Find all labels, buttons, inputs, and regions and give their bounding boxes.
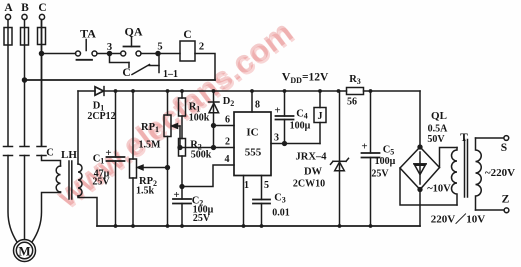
contactor coil C	[180, 41, 195, 61]
svg-text:TA: TA	[80, 27, 96, 41]
svg-text:D2: D2	[223, 96, 235, 108]
node control rail at B	[23, 78, 27, 82]
fuse FU phase A	[4, 28, 12, 46]
svg-text:QA: QA	[125, 25, 143, 39]
vdd rail right of R3	[364, 90, 421, 92]
resistor R1 100k	[179, 91, 186, 139]
svg-text:2CW10: 2CW10	[293, 179, 325, 190]
svg-text:T: T	[460, 132, 468, 144]
wire phase B upper	[24, 20, 26, 146]
wire TA to node 3	[97, 53, 110, 55]
svg-text:B: B	[21, 2, 29, 14]
relay coil J	[314, 91, 326, 144]
wire LH secondary bottom to ground rail	[78, 196, 97, 226]
pushbutton QA	[121, 37, 141, 56]
IC 555 timer U1	[234, 112, 271, 176]
node D2-pin2	[212, 146, 216, 150]
wire phase C upper	[41, 20, 43, 146]
zener diode DW 2CW10	[331, 91, 349, 226]
wire pin 4	[182, 165, 234, 187]
wire branch node3 down	[110, 54, 130, 63]
wire bridge bottom to ground	[419, 190, 421, 227]
svg-text:56: 56	[347, 97, 357, 108]
resistor R2 500k	[179, 139, 186, 200]
wire pin 1 to ground	[243, 176, 245, 227]
transformer T	[452, 138, 482, 210]
wire phase C to LH primary	[42, 156, 61, 167]
svg-text:500k: 500k	[191, 150, 212, 161]
node 3	[108, 52, 112, 56]
wire node5 to coil C	[158, 53, 180, 55]
svg-text:8: 8	[255, 100, 260, 111]
wire secondary bottom to Z	[476, 209, 505, 211]
svg-text:6: 6	[225, 115, 230, 126]
wire pin 2	[180, 147, 234, 149]
svg-text:C: C	[38, 2, 46, 14]
svg-text:Z: Z	[502, 194, 510, 206]
node R2-C2	[180, 185, 184, 189]
fuse FU phase C	[38, 28, 46, 45]
svg-text:2: 2	[199, 42, 204, 53]
terminal A	[5, 14, 10, 19]
svg-text:LH: LH	[61, 149, 77, 161]
node control tap on phase C	[40, 52, 44, 56]
node bridge top	[418, 145, 422, 149]
wire QA to node 5	[141, 53, 158, 55]
terminal S	[504, 136, 509, 141]
pushbutton TA	[76, 40, 98, 60]
svg-text:25V: 25V	[371, 169, 389, 180]
svg-text:25V: 25V	[92, 177, 110, 188]
node RP1 wiper pin2	[178, 146, 182, 150]
svg-text:1.5k: 1.5k	[136, 186, 155, 197]
current transformer LH	[56, 161, 82, 199]
svg-text:+: +	[274, 105, 280, 117]
wire LH secondary top to D1	[77, 91, 79, 164]
svg-text:M: M	[18, 244, 30, 259]
contact C 1-1	[129, 54, 159, 75]
svg-text:50V: 50V	[427, 134, 445, 145]
svg-text:1.5M: 1.5M	[139, 140, 162, 151]
watermark www.elecfans.com	[49, 13, 301, 216]
wire bridge left to transformer bottom	[400, 168, 457, 205]
svg-text:S: S	[501, 142, 507, 154]
svg-text:0.01: 0.01	[272, 208, 290, 219]
svg-text:QL: QL	[431, 110, 447, 122]
svg-text:+: +	[173, 189, 179, 201]
wire bridge right to transformer top	[440, 148, 458, 168]
capacitor C2	[173, 199, 191, 226]
diode D2	[209, 91, 220, 148]
svg-text:C: C	[183, 29, 191, 41]
capacitor C3 0.01	[253, 200, 270, 227]
svg-text:2: 2	[225, 137, 230, 148]
node bridge bottom	[418, 188, 422, 192]
svg-text:25V: 25V	[193, 213, 211, 224]
svg-text:J: J	[318, 111, 323, 122]
wire secondary top to S	[476, 137, 504, 139]
svg-text:5: 5	[264, 180, 269, 191]
svg-text:~220V: ~220V	[485, 167, 515, 179]
wire pin 5	[261, 176, 263, 200]
RP1 wiper arrow	[172, 124, 180, 148]
capacitor C4 branch	[276, 91, 294, 144]
wire pin 3	[271, 143, 320, 145]
terminal Z	[504, 208, 509, 213]
fuse FU phase B	[21, 28, 29, 46]
wire phase B lower to motor	[24, 156, 26, 240]
ground rail junction dots	[114, 224, 373, 228]
motor M	[14, 240, 36, 262]
resistor R3 56	[347, 88, 364, 95]
svg-text:100μ: 100μ	[375, 156, 396, 167]
svg-text:+: +	[105, 147, 111, 159]
svg-text:5: 5	[157, 42, 162, 53]
ground rail	[97, 225, 420, 227]
svg-text:C: C	[122, 67, 130, 79]
wire phase A lower to motor	[8, 156, 17, 243]
svg-text:R3: R3	[349, 74, 361, 86]
capacitor C1 branch	[107, 91, 125, 226]
svg-text:C5: C5	[383, 145, 395, 157]
contactor main contact phase A	[4, 147, 13, 156]
diode D1 2CP12	[78, 87, 347, 96]
svg-text:JRX–4: JRX–4	[296, 152, 328, 163]
svg-text:100k: 100k	[189, 113, 210, 124]
wire pin 8	[251, 91, 253, 112]
wire pin 6	[214, 125, 235, 127]
svg-text:3: 3	[107, 42, 112, 53]
svg-text:C4: C4	[296, 109, 308, 121]
wire tap to TA	[42, 53, 76, 55]
svg-text:A: A	[4, 2, 13, 14]
capacitor C5 branch	[362, 91, 380, 226]
terminal B	[22, 14, 27, 19]
bridge rectifier QL	[400, 91, 440, 190]
svg-text:C3: C3	[274, 193, 286, 205]
terminal C	[39, 14, 44, 19]
node D2-pin6	[212, 124, 216, 128]
potentiometer RP2 branch	[130, 91, 137, 226]
wire LH primary bottom to motor	[32, 192, 61, 242]
svg-text:0.5A: 0.5A	[428, 124, 449, 135]
wire coil C to control rail	[195, 54, 215, 81]
vdd rail junction dots	[114, 89, 373, 93]
svg-text:3: 3	[274, 133, 279, 144]
svg-text:1: 1	[244, 180, 249, 191]
wire phase A upper	[7, 20, 9, 146]
svg-text:4: 4	[225, 154, 230, 165]
svg-text:VDD=12V: VDD=12V	[282, 70, 329, 86]
wire node3 to QA	[110, 53, 121, 55]
svg-text:555: 555	[245, 147, 262, 159]
potentiometer RP1 branch	[164, 91, 171, 226]
RP2 wiper arrow	[138, 165, 170, 170]
control rail (phase B bus)	[25, 79, 216, 81]
svg-text:DW: DW	[304, 167, 323, 178]
svg-text:~10V: ~10V	[427, 184, 451, 195]
contactor main contact phase B	[20, 147, 29, 156]
node C4 pin3	[283, 142, 287, 146]
svg-text:220V／10V: 220V／10V	[431, 213, 485, 226]
node 5	[156, 52, 160, 56]
svg-text:+: +	[361, 141, 367, 153]
svg-text:2CP12: 2CP12	[87, 111, 115, 122]
svg-text:100μ: 100μ	[290, 121, 311, 132]
svg-text:IC: IC	[246, 127, 258, 139]
svg-text:1–1: 1–1	[163, 69, 178, 80]
contactor main contact phase C	[37, 147, 46, 156]
svg-text:C: C	[46, 148, 54, 159]
